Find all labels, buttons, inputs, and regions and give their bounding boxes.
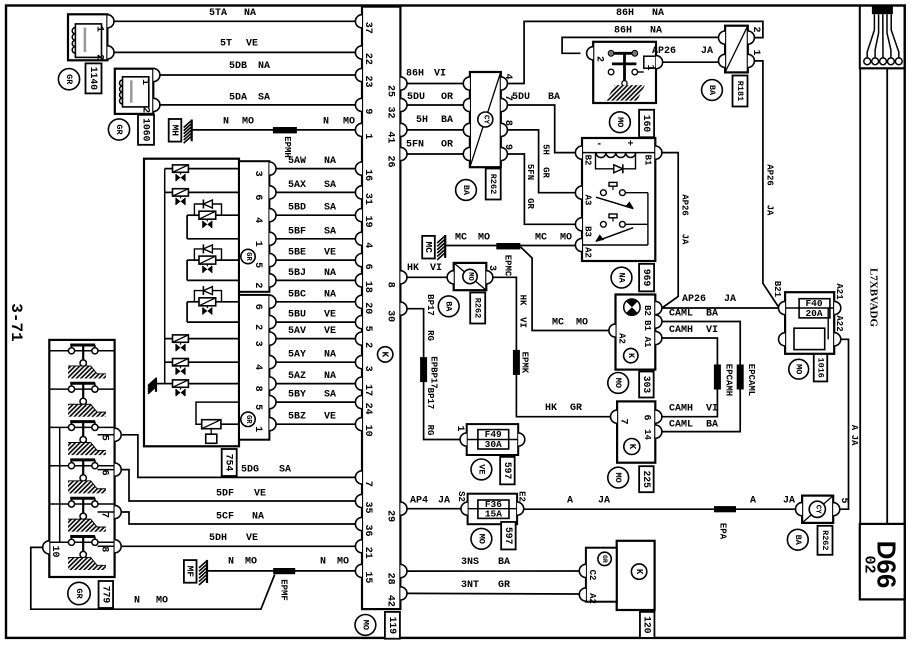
wire 5H GR (CY pin8 to relay A3) — [507, 130, 575, 193]
fuse F49 id box 597 — [500, 457, 515, 485]
svg-text:1: 1 — [750, 49, 761, 55]
wire A JA (fuse F40 A22 down to connector CY5) — [840, 339, 859, 509]
fuse F36 15A — [468, 494, 517, 525]
svg-text:AP26: AP26 — [765, 164, 775, 186]
svg-text:3: 3 — [362, 366, 373, 372]
svg-text:SA: SA — [279, 465, 291, 476]
svg-text:19: 19 — [362, 216, 373, 228]
actuator block outer body 754 — [144, 159, 239, 447]
svg-text:5: 5 — [252, 262, 263, 268]
connector CY id box R262 — [486, 169, 501, 200]
svg-text:NA: NA — [244, 8, 256, 19]
relay color NA — [611, 267, 632, 288]
svg-text:MO: MO — [615, 117, 625, 127]
wire 5DH VE (module pin8 to ECU pin21) — [121, 533, 355, 546]
svg-text:23: 23 — [362, 75, 373, 87]
svg-text:SA: SA — [324, 226, 336, 237]
svg-text:7: 7 — [362, 481, 373, 487]
svg-text:SA: SA — [324, 180, 336, 191]
svg-text:86H: 86H — [616, 8, 634, 19]
svg-text:MO: MO — [242, 117, 254, 128]
svg-text:NA: NA — [324, 371, 336, 382]
svg-text:5H: 5H — [541, 144, 551, 155]
svg-text:EPMH: EPMH — [282, 136, 292, 158]
svg-text:120: 120 — [642, 616, 653, 634]
wire 5BZ VE (block to ECU pin10) — [276, 412, 355, 425]
svg-text:28: 28 — [385, 573, 396, 585]
svg-text:25: 25 — [385, 85, 396, 97]
svg-text:A21: A21 — [834, 283, 844, 300]
svg-text:A: A — [849, 425, 859, 431]
svg-text:86H: 86H — [406, 69, 424, 80]
svg-text:K: K — [380, 352, 391, 358]
valve V3 (row 5AV) — [165, 335, 239, 351]
svg-text:JA: JA — [849, 435, 859, 446]
svg-text:1: 1 — [644, 64, 655, 70]
wire 5AX SA (block to ECU pin31) — [276, 180, 355, 193]
svg-text:SA: SA — [324, 390, 336, 401]
svg-text:5BU: 5BU — [288, 310, 306, 321]
svg-text:HK: HK — [545, 403, 557, 414]
svg-text:1: 1 — [139, 79, 150, 85]
unit 120 pin A2 — [579, 588, 597, 604]
connector CY pin 8 — [463, 120, 513, 137]
svg-text:8: 8 — [385, 282, 396, 288]
ignition coil unit body — [593, 42, 656, 103]
svg-text:RG: RG — [425, 330, 435, 341]
wire 5T VE (sensor 1140 pin2 to ECU pin22) — [114, 38, 355, 52]
wire 5TA NA (sensor 1140 pin1 to ECU pin37) — [114, 8, 355, 21]
spark output 5 of module 779 — [49, 498, 114, 532]
svg-text:R262: R262 — [820, 530, 830, 550]
svg-text:5T: 5T — [220, 38, 232, 49]
svg-text:597: 597 — [502, 462, 513, 480]
svg-text:BA: BA — [707, 85, 717, 96]
sensor 1060 color GR — [108, 119, 129, 140]
ECU pins right (25 32 41 26 8 30 29 28 42) — [385, 77, 408, 607]
svg-text:1060: 1060 — [141, 118, 152, 141]
svg-text:MO: MO — [576, 318, 588, 329]
svg-text:8: 8 — [502, 120, 513, 126]
relay id box 160 — [639, 110, 654, 138]
svg-text:MO: MO — [245, 557, 257, 568]
svg-text:16: 16 — [362, 169, 373, 181]
svg-text:1: 1 — [252, 241, 263, 247]
svg-text:NA: NA — [324, 268, 336, 279]
svg-text:5AX: 5AX — [288, 180, 306, 191]
svg-text:MO: MO — [478, 233, 490, 244]
connector R181 color BA — [702, 80, 723, 101]
svg-text:OR: OR — [441, 92, 453, 103]
wire 86H NA (R181 pin2 to coil pin2) — [562, 25, 718, 53]
svg-text:5: 5 — [362, 326, 373, 332]
wire CAMH VI (sensor303 A1 to sensor225 pin6) with splice EPCAMH — [662, 325, 718, 417]
inline connector R181 body — [725, 26, 748, 73]
ECU connector 119 body — [362, 7, 400, 610]
svg-text:E2: E2 — [517, 491, 527, 502]
svg-text:AP26: AP26 — [652, 46, 676, 57]
wire N MO return from module pin 10 — [31, 547, 275, 609]
svg-text:VE: VE — [246, 533, 258, 544]
svg-text:37: 37 — [362, 22, 373, 34]
sensor 303 color MO — [608, 373, 629, 394]
svg-text:3: 3 — [252, 171, 263, 177]
svg-text:VI: VI — [518, 317, 528, 328]
svg-text:2: 2 — [252, 282, 263, 288]
svg-text:754: 754 — [224, 454, 235, 472]
connector CY pin 7 — [463, 95, 513, 112]
splice EPCAML — [737, 364, 756, 396]
svg-text:5AY: 5AY — [288, 350, 306, 361]
svg-text:EPCAMH: EPCAMH — [724, 364, 734, 396]
svg-text:4: 4 — [252, 364, 263, 370]
double relay body — [582, 138, 655, 261]
wire N MO (ground MF / module pin10 to ECU pin15) — [207, 557, 355, 571]
inductive sensor 1140 (engine speed) — [68, 14, 107, 60]
svg-text:30A: 30A — [485, 439, 502, 450]
svg-text:VE: VE — [476, 464, 486, 474]
svg-text:5DA: 5DA — [229, 93, 247, 104]
svg-text:JA: JA — [783, 495, 795, 506]
fuse F49 right terminal — [518, 433, 525, 446]
wire 5DF VE (module pin6 to ECU pin35) — [121, 470, 355, 501]
svg-text:5: 5 — [98, 435, 109, 441]
wire 5BE VE (block to ECU pin6) — [276, 248, 355, 261]
svg-text:K: K — [626, 353, 636, 359]
svg-text:5DH: 5DH — [209, 533, 227, 544]
svg-text:5BF: 5BF — [288, 226, 306, 237]
block connector B (pins 6 2 3 4 8 5 1) — [239, 295, 269, 440]
svg-text:B2: B2 — [583, 155, 593, 166]
svg-text:+: + — [627, 139, 633, 150]
svg-text:EPMF: EPMF — [279, 579, 289, 601]
svg-text:A2: A2 — [583, 247, 593, 258]
inductive sensor 1060 — [115, 69, 154, 114]
svg-text:10: 10 — [362, 425, 373, 437]
wire 5DA SA (sensor 1060 pin2 to ECU pin9) — [160, 93, 355, 105]
svg-text:1016: 1016 — [816, 357, 826, 377]
wire 5BU VE (block to ECU pin5) — [276, 310, 355, 323]
svg-text:K: K — [634, 569, 644, 575]
wire AP4 JA (ECU pin29 to fuse F36 S2) — [407, 496, 461, 509]
svg-text:MC: MC — [455, 233, 467, 244]
svg-text:MO: MO — [560, 233, 572, 244]
fuse F40 20A — [785, 292, 834, 354]
svg-text:18: 18 — [362, 281, 373, 293]
sensor 303 pin B2 — [642, 301, 662, 316]
svg-text:CAMH: CAMH — [669, 404, 693, 415]
fuse F49 30A — [460, 424, 518, 455]
svg-text:5BE: 5BE — [288, 248, 306, 259]
sensor 1060 id box — [138, 115, 154, 145]
svg-text:NA: NA — [617, 272, 627, 283]
svg-text:3NT: 3NT — [461, 580, 479, 591]
svg-text:2: 2 — [594, 56, 605, 62]
svg-text:4: 4 — [362, 242, 373, 248]
injector I3 (rows 5BC/5BU) — [187, 286, 239, 322]
connector R181 id box — [733, 76, 748, 107]
sensor 303 pin A2 — [609, 324, 627, 344]
svg-text:BA: BA — [444, 301, 454, 312]
svg-text:4: 4 — [252, 217, 263, 223]
wire 3NT GR (ECU pin42 to unit 120 A2) — [407, 580, 579, 594]
spark output 6 of module 779 — [49, 537, 114, 571]
svg-text:C2: C2 — [587, 570, 597, 581]
wire 5AW NA (block to ECU pin16) — [276, 156, 355, 169]
svg-text:15A: 15A — [485, 509, 502, 520]
svg-text:A: A — [567, 495, 573, 506]
valve V5 (row 5AZ) — [165, 380, 239, 396]
wire N MO (ground MH to ECU pin1) with splice EPMH — [192, 117, 356, 130]
module 779 pin 7 — [98, 505, 122, 518]
ECU pins left (37 22 23 9 1 16 31 19 4 6 18 20 5 2 3 17 24 10 7 35 36 21 15) — [355, 15, 373, 584]
svg-text:1: 1 — [362, 133, 373, 139]
splice EPBP17 — [420, 356, 438, 388]
svg-text:2: 2 — [362, 342, 373, 348]
ground MH — [169, 119, 192, 143]
svg-text:BA: BA — [706, 420, 718, 431]
svg-text:3: 3 — [252, 341, 263, 347]
svg-text:JA: JA — [438, 496, 450, 507]
svg-text:GR: GR — [64, 74, 74, 85]
svg-text:JA: JA — [724, 294, 736, 305]
svg-text:30: 30 — [385, 310, 396, 322]
svg-text:1: 1 — [94, 26, 105, 32]
svg-text:R181: R181 — [735, 81, 745, 101]
svg-text:GR: GR — [114, 124, 124, 135]
svg-text:VI: VI — [434, 69, 446, 80]
connector CY lower color BA — [787, 529, 808, 550]
svg-text:MO: MO — [613, 378, 623, 388]
svg-text:3NS: 3NS — [461, 557, 479, 568]
svg-text:20A: 20A — [805, 308, 822, 319]
wire HK VI (ECU pin8 to connector MO) — [407, 263, 447, 277]
svg-text:1140: 1140 — [88, 67, 99, 90]
fuse F49 pin 1 — [454, 425, 467, 446]
wire AP26 JA (coil pin1 to R181 pin1) — [652, 46, 719, 62]
sensor 225 pin 7 — [611, 410, 629, 424]
connector MO pin 3 — [447, 265, 497, 284]
svg-text:6: 6 — [252, 194, 263, 200]
svg-text:969: 969 — [641, 269, 652, 287]
wire 5H BA (ECU pin41 to CY pin8) — [407, 115, 463, 130]
svg-text:6: 6 — [252, 304, 263, 310]
svg-text:9: 9 — [502, 144, 513, 150]
svg-text:24: 24 — [362, 403, 373, 415]
connector CY pin 4 — [463, 73, 513, 90]
wire 5AY NA (block to ECU pin3) — [276, 350, 355, 363]
connector CY pin 5 — [796, 497, 849, 515]
svg-text:CY: CY — [481, 115, 489, 125]
svg-text:2: 2 — [139, 107, 150, 113]
wire 5DU BA (CY pin7 to relay B2) — [507, 92, 575, 153]
svg-text:B1: B1 — [643, 155, 653, 166]
fuse F36 id box 597 — [501, 522, 516, 550]
svg-text:CY: CY — [813, 505, 821, 515]
wire 5BD SA (block to ECU pin19) — [276, 203, 355, 216]
unit 120 pin C2 — [579, 564, 597, 580]
svg-text:26: 26 — [385, 155, 396, 167]
svg-text:R262: R262 — [488, 174, 498, 194]
sensor 303 pin A1 — [642, 331, 662, 348]
injector I1 (rows 5BD/5BF) — [187, 200, 239, 239]
svg-text:5: 5 — [252, 404, 263, 410]
svg-text:29: 29 — [385, 510, 396, 522]
svg-text:GR: GR — [74, 588, 84, 599]
svg-text:2: 2 — [252, 324, 263, 330]
svg-text:GR: GR — [541, 167, 551, 178]
svg-text:SA: SA — [258, 93, 270, 104]
wire AP26 JA (sensor B2 to fuse F40 B21) — [662, 294, 778, 308]
svg-text:31: 31 — [362, 193, 373, 205]
wire 5FN GR (CY pin9 to relay B3) — [507, 154, 575, 224]
block resistor element (rows 5BY/5BZ) — [196, 402, 239, 443]
svg-text:MO: MO — [466, 272, 474, 280]
svg-text:HK: HK — [407, 263, 419, 274]
module 779 pin 10 — [43, 541, 60, 558]
svg-text:41: 41 — [385, 131, 396, 143]
svg-text:7: 7 — [98, 512, 109, 518]
svg-text:5DG: 5DG — [241, 465, 259, 476]
svg-text:MO: MO — [337, 557, 349, 568]
spark output 2 of module 779 — [49, 383, 114, 417]
sensor 225 pin 14 — [642, 425, 662, 440]
svg-text:B2: B2 — [642, 305, 652, 316]
svg-text:EPMC: EPMC — [503, 255, 513, 277]
sensor 1140 color GR — [58, 69, 79, 90]
svg-text:CAML: CAML — [669, 420, 693, 431]
connector B pin numbers — [252, 295, 276, 432]
svg-text:S2: S2 — [456, 491, 466, 502]
camshaft sensor 303 body — [616, 295, 656, 370]
svg-text:5DF: 5DF — [216, 489, 234, 500]
svg-text:L7XBVADG: L7XBVADG — [868, 268, 880, 328]
ground MC — [422, 235, 445, 260]
svg-text:6: 6 — [641, 414, 652, 420]
svg-text:A: A — [750, 495, 756, 506]
svg-text:GR: GR — [244, 415, 252, 424]
wire 5DG SA (module pin5 to ECU pin7) — [121, 435, 355, 478]
spark output 3 of module 779 — [49, 422, 114, 456]
svg-text:A2: A2 — [587, 593, 597, 604]
svg-text:225: 225 — [641, 470, 652, 488]
sensor 1060 pin 2 — [139, 98, 160, 113]
svg-text:3: 3 — [486, 265, 497, 271]
svg-text:EPCAML: EPCAML — [746, 364, 756, 396]
svg-text:21: 21 — [362, 547, 373, 559]
svg-text:32: 32 — [385, 106, 396, 118]
svg-text:A1: A1 — [642, 337, 652, 348]
svg-text:5TA: 5TA — [209, 8, 227, 19]
spark output 1 of module 779 — [49, 345, 114, 379]
unit 120 connector sub-box — [586, 548, 617, 602]
splice EPA — [714, 506, 736, 540]
wire BP17 RG (ECU pin30 to fuse F49) with splice EPBP17 — [407, 294, 460, 439]
spark output 4 of module 779 — [49, 460, 114, 494]
sensor 1140 pin 1 — [94, 15, 115, 32]
relay id box 969 — [639, 264, 654, 292]
sensor 303 pin B1 — [642, 315, 662, 332]
sensor 225 pin 6 — [641, 410, 662, 423]
svg-text:8: 8 — [98, 546, 109, 552]
module 779 pin 6 — [98, 463, 122, 476]
svg-text:17: 17 — [362, 384, 373, 396]
connector MO id box R262 — [470, 293, 485, 324]
svg-text:MO: MO — [343, 117, 355, 128]
fuse F40 pin B21 — [772, 281, 785, 315]
svg-text:NA: NA — [324, 289, 336, 300]
wire 5DU OR (ECU pin32 to CY pin7) — [407, 92, 463, 105]
inline connector R262 (CY) body — [470, 72, 501, 167]
svg-text:A2: A2 — [617, 333, 627, 344]
ground MF — [184, 560, 207, 585]
relay pin B1 — [643, 146, 662, 166]
svg-text:10: 10 — [49, 545, 60, 557]
svg-text:GR: GR — [601, 555, 608, 563]
relay pin B3 — [575, 218, 592, 237]
svg-text:VE: VE — [324, 326, 336, 337]
svg-text:NA: NA — [324, 156, 336, 167]
svg-text:MO: MO — [360, 620, 370, 630]
fuse F40 pin A22 — [834, 315, 844, 346]
svg-text:2: 2 — [750, 26, 761, 32]
svg-text:1: 1 — [454, 425, 465, 431]
svg-text:A3: A3 — [583, 195, 593, 206]
svg-text:VE: VE — [324, 248, 336, 259]
svg-text:5AV: 5AV — [288, 326, 306, 337]
svg-text:5AW: 5AW — [288, 156, 306, 167]
svg-text:JA: JA — [598, 495, 610, 506]
svg-text:5BC: 5BC — [288, 289, 306, 300]
svg-text:VE: VE — [324, 310, 336, 321]
svg-text:160: 160 — [641, 115, 652, 133]
svg-text:14: 14 — [642, 429, 652, 440]
svg-text:MH: MH — [170, 125, 181, 137]
fuse F36 pin E2 — [517, 491, 527, 515]
svg-text:BA: BA — [793, 535, 803, 546]
svg-text:K: K — [627, 444, 637, 450]
svg-text:15: 15 — [362, 571, 373, 583]
wire 86H VI (ECU pin25 to CY pin4) — [406, 69, 463, 84]
svg-text:MC: MC — [423, 241, 434, 253]
relay pin A3 — [575, 186, 592, 205]
ECU internal K symbol — [378, 347, 393, 362]
fuse F36 color MO — [471, 528, 492, 549]
svg-text:BA: BA — [461, 185, 471, 196]
wire 5FN OR (ECU pin26 to CY pin9) — [406, 139, 463, 154]
svg-text:A22: A22 — [834, 315, 844, 331]
svg-text:4: 4 — [502, 73, 513, 79]
svg-text:EPMK: EPMK — [520, 352, 530, 374]
svg-text:B3: B3 — [583, 226, 593, 237]
svg-text:JA: JA — [701, 46, 713, 57]
ECU ground color MO — [355, 615, 376, 636]
solenoid valve V2 (row 5AX) — [165, 189, 239, 205]
wire 5AZ NA (block to ECU pin17) — [276, 371, 355, 384]
svg-text:1: 1 — [252, 426, 263, 432]
svg-text:BP17: BP17 — [425, 388, 435, 410]
svg-text:EPBP17: EPBP17 — [429, 356, 439, 388]
wire MC MO (ground MC to relay A2 and cam sensor A2) — [445, 233, 609, 331]
module 779 color GR — [68, 582, 90, 604]
svg-text:B21: B21 — [772, 281, 782, 298]
fuse F40 color MO — [789, 359, 809, 379]
block id box 754 — [222, 449, 237, 476]
unit 120 id box — [640, 612, 655, 638]
svg-text:5BD: 5BD — [288, 203, 306, 214]
wire 5DB NA (sensor 1060 pin1 to ECU pin23) — [160, 61, 355, 75]
block internal supply rail — [164, 169, 166, 384]
